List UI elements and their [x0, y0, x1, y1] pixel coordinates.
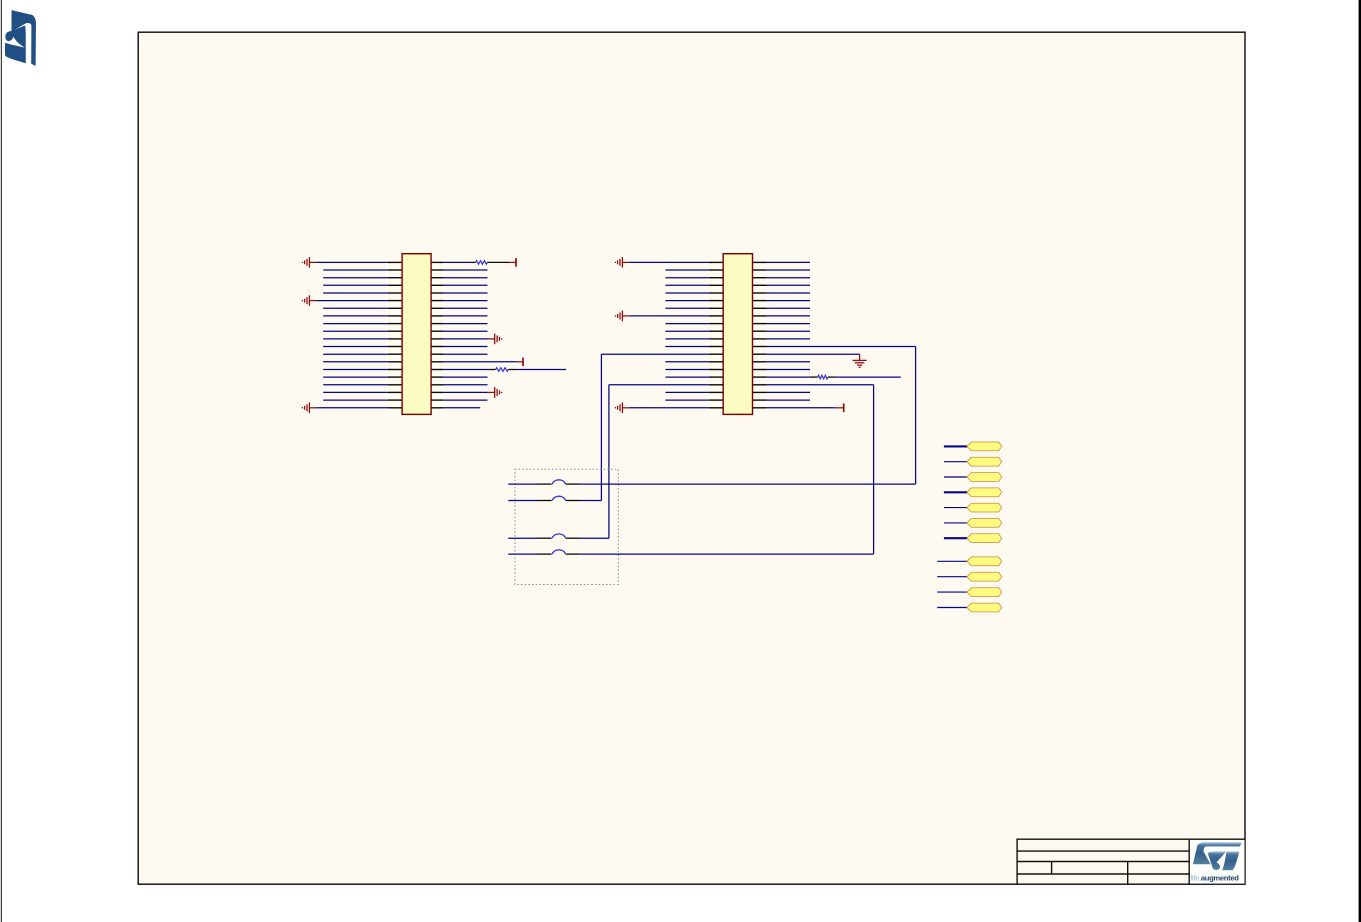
ground G8 (U2 pin 20) — [615, 402, 629, 413]
wire U1 left pin row 9 — [323, 323, 388, 325]
wire jumper net 3 (right) — [581, 537, 609, 539]
ground G4 (U1 right) — [488, 334, 502, 345]
wire to CN3 — [944, 476, 968, 478]
wire U2 right row 5 — [767, 292, 811, 294]
off-page connector CN3 — [967, 473, 1002, 482]
dashed option box — [515, 469, 618, 584]
off-page connector CN9 — [967, 572, 1002, 581]
U1 pin (right) row 10 stub — [431, 330, 444, 332]
U1 pin 3 stub — [388, 277, 402, 279]
IC U2 body — [723, 254, 752, 415]
wire U2 left pin row 19 — [665, 399, 708, 401]
U1 pin (right) row 16 stub — [431, 376, 444, 378]
wire U1 row20 right — [444, 407, 481, 409]
U1 pin 18 stub — [388, 391, 402, 393]
U2 pin 11 stub — [709, 338, 724, 340]
wire jumper net 1 (left) — [508, 483, 537, 485]
U2 pin (right) row 9 stub — [753, 323, 767, 325]
wire to CN4 — [944, 491, 968, 493]
U1 pin 13 stub — [388, 353, 402, 355]
wire vertical net V2 — [608, 385, 610, 538]
schematic sheet — [138, 32, 1245, 884]
wire U1 row14 to power bar — [444, 361, 517, 363]
U1 pin 8 stub — [388, 315, 402, 317]
U2 pin 15 stub — [709, 369, 724, 371]
solder bridge SB1 — [537, 480, 581, 484]
wire U1 right row 3 — [444, 277, 488, 279]
wire U1 row1 to R1 — [444, 261, 472, 263]
title block — [1016, 839, 1245, 884]
wire U2 left pin row 6 — [665, 300, 708, 302]
wire to CN8 — [937, 560, 967, 562]
wire U1 left pin row 6 — [316, 300, 388, 302]
power bar P3 — [843, 403, 845, 412]
U1 pin 5 stub — [388, 292, 402, 294]
wire to CN2 — [944, 461, 968, 463]
wire U2 right row 7 — [767, 307, 811, 309]
wire U2 left pin row 5 — [665, 292, 708, 294]
wire U1 left pin row 10 — [323, 330, 388, 332]
U2 pin 9 stub — [709, 323, 724, 325]
wire U2 right row 9 — [767, 323, 811, 325]
solder bridge SB4 — [537, 550, 581, 554]
U2 pin 4 stub — [709, 284, 724, 286]
U2 pin 1 stub — [709, 261, 724, 263]
wire U1 left pin row 4 — [323, 284, 388, 286]
U2 pin (right) row 12 stub — [753, 346, 767, 348]
wire U2 right row 2 — [767, 269, 811, 271]
ground G3 (U1 pin 20) — [302, 402, 316, 413]
wire U2 right row 15 — [767, 369, 811, 371]
U2 pin 18 stub — [709, 391, 724, 393]
wire U1 left pin row 5 — [323, 292, 388, 294]
wire U1 right row 7 — [444, 307, 488, 309]
U2 pin 8 stub — [709, 315, 724, 317]
off-page connector CN2 — [967, 457, 1002, 466]
earth ground G9 — [853, 354, 867, 367]
wire U2 right row 14 — [767, 361, 811, 363]
wire U1 left pin row 12 — [323, 346, 388, 348]
U2 pin 20 stub — [709, 407, 724, 409]
U2 pin (right) row 14 stub — [753, 361, 767, 363]
U2 pin 14 stub — [709, 361, 724, 363]
wire U2 row20 to power bar — [767, 407, 835, 409]
wire U2 left pin row 14 — [665, 361, 708, 363]
U2 pin 2 stub — [709, 269, 724, 271]
U2 pin 12 stub — [709, 346, 724, 348]
wire U2 right row 19 — [767, 399, 811, 401]
wire U1 right row 19 — [444, 399, 488, 401]
resistor R2 — [496, 368, 509, 372]
wire U1 left pin row 2 — [323, 269, 388, 271]
wire U1 left pin row 17 — [323, 384, 388, 386]
wire U2 left pin row 9 — [665, 323, 708, 325]
U2 pin (right) row 15 stub — [753, 369, 767, 371]
wire U1 right row 2 — [444, 269, 488, 271]
U1 pin 17 stub — [388, 384, 402, 386]
wire U1 left pin row 11 — [323, 338, 388, 340]
U2 pin (right) row 3 stub — [753, 277, 767, 279]
U2 pin 3 stub — [709, 277, 724, 279]
wire U1 left pin row 15 — [323, 369, 388, 371]
wire U1 left pin row 3 — [323, 277, 388, 279]
U1 pin (right) row 18 stub — [431, 391, 444, 393]
wire to CN7 — [944, 537, 968, 539]
U1 pin 10 stub — [388, 330, 402, 332]
wire U2 left pin row 3 — [665, 277, 708, 279]
wire U1 right row 8 — [444, 315, 488, 317]
wire U2 right row 18 — [767, 391, 811, 393]
power bar P1 — [515, 258, 517, 267]
wire U2 left pin row 10 — [665, 330, 708, 332]
wire jumper net 2 (left) — [508, 500, 537, 502]
wire U1 right row 10 — [444, 330, 488, 332]
U2 pin (right) row 18 stub — [753, 391, 767, 393]
wire U2 left pin row 13 — [601, 353, 708, 355]
U1 pin 11 stub — [388, 338, 402, 340]
IC U1 body — [402, 254, 431, 415]
resistor R3 — [818, 375, 828, 379]
U1 pin (right) row 13 stub — [431, 353, 444, 355]
wire jumper net 2 (right) — [581, 500, 602, 502]
wire U1 left pin row 14 — [323, 361, 388, 363]
U2 pin 6 stub — [709, 300, 724, 302]
wire U2 right row 4 — [767, 284, 811, 286]
U1 pin 9 stub — [388, 323, 402, 325]
wire vertical net V4 — [915, 347, 917, 485]
wire U2 left pin row 8 — [629, 315, 708, 317]
wire U1 right row 9 — [444, 323, 488, 325]
off-page connector CN4 — [967, 488, 1002, 497]
U1 pin (right) row 3 stub — [431, 277, 444, 279]
U1 pin 4 stub — [388, 284, 402, 286]
U2 pin (right) row 7 stub — [753, 307, 767, 309]
wire vertical net V1 — [600, 354, 602, 500]
wire U1 row18 to ground — [444, 391, 488, 393]
U2 pin (right) row 13 stub — [753, 353, 767, 355]
wire U2 right row 11 — [767, 338, 811, 340]
solder bridge SB2 — [537, 496, 581, 500]
U1 pin (right) row 1 stub — [431, 261, 444, 263]
wire U1 row11 to ground — [444, 338, 488, 340]
U1 pin 12 stub — [388, 346, 402, 348]
U1 pin (right) row 2 stub — [431, 269, 444, 271]
U1 pin (right) row 14 stub — [431, 361, 444, 363]
off-page connector CN11 — [967, 603, 1002, 612]
U1 pin (right) row 19 stub — [431, 399, 444, 401]
wire U1 row15 to R2 — [444, 369, 489, 371]
wire R2 output — [515, 369, 566, 371]
U1 pin (right) row 5 stub — [431, 292, 444, 294]
wire jumper net 1 (right) — [581, 483, 916, 485]
off-page connector CN5 — [967, 503, 1002, 512]
U2 pin (right) row 19 stub — [753, 399, 767, 401]
U2 pin 13 stub — [709, 353, 724, 355]
U2 pin (right) row 5 stub — [753, 292, 767, 294]
wire R3 output — [836, 376, 901, 378]
wire U2 left pin row 20 — [629, 407, 708, 409]
svg-text:life.augmented: life.augmented — [1191, 873, 1240, 882]
wire U2 row17 long right — [767, 384, 874, 386]
U2 pin (right) row 6 stub — [753, 300, 767, 302]
wire U2 right row 6 — [767, 300, 811, 302]
U1 pin 19 stub — [388, 399, 402, 401]
ST logo (title block) — [1193, 842, 1242, 870]
wire U2 row16 to R3 — [767, 376, 811, 378]
U1 pin (right) row 17 stub — [431, 384, 444, 386]
U2 pin (right) row 16 stub — [753, 376, 767, 378]
wire U1 left pin row 8 — [323, 315, 388, 317]
wire jumper net 4 (left) — [508, 553, 537, 555]
ground G6 (U2 pin 1) — [615, 257, 629, 268]
U1 pin (right) row 12 stub — [431, 346, 444, 348]
wire U2 left pin row 15 — [665, 369, 708, 371]
off-page connector CN10 — [967, 588, 1002, 597]
U2 pin (right) row 8 stub — [753, 315, 767, 317]
U2 pin 10 stub — [709, 330, 724, 332]
wire vertical net V3 — [873, 385, 875, 554]
wire U1 right row 16 — [444, 376, 488, 378]
U2 pin 19 stub — [709, 399, 724, 401]
U1 pin 6 stub — [388, 300, 402, 302]
wire to CN10 — [937, 591, 967, 593]
page left edge line — [1, 0, 2, 922]
wire U1 left pin row 7 — [323, 307, 388, 309]
wire U2 right row 10 — [767, 330, 811, 332]
wire to CN1 — [944, 445, 968, 447]
wire U2 right row 1 — [767, 261, 811, 263]
U1 pin (right) row 8 stub — [431, 315, 444, 317]
wire U1 left pin row 16 — [323, 376, 388, 378]
U2 pin (right) row 2 stub — [753, 269, 767, 271]
wire U2 row13 to earth ground — [767, 353, 860, 355]
U2 pin (right) row 11 stub — [753, 338, 767, 340]
U1 pin (right) row 15 stub — [431, 369, 444, 371]
U1 pin 15 stub — [388, 369, 402, 371]
wire U2 left pin row 17 — [609, 384, 709, 386]
ground G5 (U1 right) — [488, 387, 502, 398]
wire U2 left pin row 1 — [629, 261, 708, 263]
wire to CN9 — [937, 576, 967, 578]
wire U2 left pin row 12 — [665, 346, 708, 348]
off-page connector CN8 — [967, 557, 1002, 566]
U2 pin (right) row 4 stub — [753, 284, 767, 286]
wire U1 right row 5 — [444, 292, 488, 294]
U2 pin 5 stub — [709, 292, 724, 294]
U1 pin 7 stub — [388, 307, 402, 309]
U1 pin (right) row 6 stub — [431, 300, 444, 302]
wire U1 left pin row 1 — [316, 261, 388, 263]
page right edge bar — [1359, 0, 1361, 922]
ground G2 (U1 pin 6) — [302, 295, 316, 306]
wire U1 left pin row 20 — [316, 407, 388, 409]
wire to CN11 — [937, 607, 967, 609]
U1 pin (right) row 4 stub — [431, 284, 444, 286]
U1 pin 14 stub — [388, 361, 402, 363]
U2 pin (right) row 17 stub — [753, 384, 767, 386]
U1 pin 20 stub — [388, 407, 402, 409]
U1 pin 1 stub — [388, 261, 402, 263]
resistor R1 — [476, 261, 488, 265]
wire U1 left pin row 18 — [323, 391, 388, 393]
wire U1 right row 6 — [444, 300, 488, 302]
wire U1 right row 12 — [444, 346, 488, 348]
U1 pin (right) row 7 stub — [431, 307, 444, 309]
ground G1 (U1 pin 1) — [302, 257, 316, 268]
wire U1 right row 13 — [444, 353, 488, 355]
wire U2 left pin row 4 — [665, 284, 708, 286]
wire U1 left pin row 19 — [323, 399, 388, 401]
U2 pin (right) row 1 stub — [753, 261, 767, 263]
U2 pin 7 stub — [709, 307, 724, 309]
wire U1 left pin row 13 — [323, 353, 388, 355]
U1 pin (right) row 9 stub — [431, 323, 444, 325]
ground G7 (U2 pin 8) — [615, 311, 629, 322]
wire to CN5 — [944, 507, 968, 509]
wire jumper net 3 (left) — [508, 537, 537, 539]
title block logo cell — [1190, 840, 1245, 884]
wire U2 row12 long right — [767, 346, 916, 348]
power bar P2 — [522, 358, 524, 367]
U1 pin (right) row 11 stub — [431, 338, 444, 340]
U1 pin (right) row 20 stub — [431, 407, 444, 409]
off-page connector CN7 — [967, 534, 1002, 543]
wire U1 right row 4 — [444, 284, 488, 286]
wire U2 left pin row 11 — [665, 338, 708, 340]
wire U2 left pin row 7 — [665, 307, 708, 309]
wire U2 left pin row 16 — [665, 376, 708, 378]
U2 pin (right) row 20 stub — [753, 407, 767, 409]
wire U2 left pin row 18 — [665, 391, 708, 393]
U2 pin (right) row 10 stub — [753, 330, 767, 332]
wire U1 right row 17 — [444, 384, 488, 386]
ST logo (page corner, rotated) — [5, 10, 36, 66]
U1 pin 16 stub — [388, 376, 402, 378]
U1 pin 2 stub — [388, 269, 402, 271]
U2 pin 17 stub — [709, 384, 724, 386]
U2 pin 16 stub — [709, 376, 724, 378]
off-page connector CN6 — [967, 519, 1002, 528]
wire to CN6 — [944, 522, 968, 524]
wire jumper net 4 (right) — [581, 553, 874, 555]
wire U2 left pin row 2 — [665, 269, 708, 271]
wire U2 right row 3 — [767, 277, 811, 279]
wire R1 to power bar — [487, 261, 509, 263]
solder bridge SB3 — [537, 534, 581, 538]
off-page connector CN1 — [967, 442, 1002, 451]
wire U2 right row 8 — [767, 315, 811, 317]
